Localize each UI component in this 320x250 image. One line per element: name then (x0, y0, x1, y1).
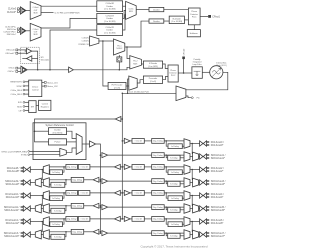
node SDCLKout13 pads (21, 232, 22, 233)
mux DCLKout6 output mux (184, 217, 190, 227)
wire PLL1 N mux to N delay (125, 21, 149, 47)
wire PD2 to loop filter (178, 72, 192, 74)
svg-text:Dig. Delay: Dig. Delay (153, 193, 163, 195)
wire sysref rail (96, 144, 101, 232)
wire to SDCLK mux (49, 179, 71, 181)
wire status outputs (42, 81, 45, 83)
buffer sysref clock buffer (115, 117, 121, 122)
node CPout1 pin (208, 15, 211, 18)
svg-text:DCLKout6*: DCLKout6* (211, 222, 224, 225)
svg-text:SYNC and SYSREF_REQ: SYNC and SYSREF_REQ (1, 151, 27, 153)
svg-text:CPout2: CPout2 (183, 48, 186, 56)
svg-text:Registers: Registers (41, 105, 49, 108)
wire OSCin main line (27, 69, 68, 71)
wire R delay to phase detector PLL1 (164, 9, 189, 11)
block SPI (29, 101, 36, 113)
wire mux to driver DCLKout2 (190, 169, 200, 171)
svg-text:Holdover: Holdover (190, 33, 198, 35)
mux SDCLKout11 delay mux (43, 204, 49, 214)
node SDCLKout11 pads (21, 206, 22, 207)
wire VCO to distribution mux (186, 72, 228, 90)
delay analog fs delay SDCLKout11 (51, 208, 65, 213)
svg-text:OSCout0*: OSCout0* (5, 52, 15, 55)
buffer DCLKout0 differential driver (200, 141, 203, 146)
buffer SYSREF tap SDCLKout13 (100, 231, 102, 233)
wire sysref line SDCLKout7 (108, 232, 152, 234)
delay digital delay SDCLKout5 (152, 205, 165, 210)
node DCLKout12 pads (21, 219, 22, 220)
mux DCLKout8 output mux (43, 165, 49, 175)
svg-text:Phase: Phase (191, 11, 198, 13)
wire CLKin0R to PLL1 R mux (123, 5, 126, 7)
svg-text:DCLKout4*: DCLKout4* (211, 196, 224, 199)
wire SPI to control registers (36, 104, 39, 106)
svg-text:System Reference Control: System Reference Control (45, 124, 74, 127)
buffer DCLKout10 differential driver (27, 193, 30, 198)
wire OSCin to PLL2 mux (73, 67, 129, 70)
wire main distribution vertical (121, 93, 123, 219)
mux SDCLKout7 delay mux (184, 230, 190, 240)
svg-text:(8 to 8191): (8 to 8191) (53, 132, 63, 135)
node DCLKout4 pads (208, 193, 209, 194)
delay digital delay DCLKout12 (66, 217, 78, 222)
svg-text:DCLKout10*: DCLKout10* (6, 196, 20, 199)
svg-text:PLL2: PLL2 (171, 75, 175, 77)
wire divider line to mux DCLKout0 (164, 140, 184, 142)
op-amp PD2 Phase Detector PLL2 (168, 65, 178, 82)
svg-text:OSCin*: OSCin* (8, 71, 15, 73)
wire to SDCLK mux (49, 205, 71, 207)
buffer DCLKout2 differential driver (200, 167, 203, 172)
svg-text:fs Delay: fs Delay (54, 237, 62, 239)
wire device clock to SDCLK mux (191, 222, 193, 232)
svg-text:fs Delay: fs Delay (171, 146, 179, 148)
svg-text:Dig. Delay: Dig. Delay (73, 232, 83, 234)
block SYSREF Pulser (49, 139, 67, 145)
divider CLKin1R (1 to 16,383) (97, 13, 123, 23)
wire distribution tap DCLKout8 (122, 166, 124, 168)
mux SYSREF MUX (76, 134, 82, 155)
mux SYNC input gate (60, 148, 67, 156)
svg-text:Dig. Delay: Dig. Delay (67, 167, 77, 169)
delay digital delay SDCLKout9 (71, 177, 84, 182)
svg-text:PLL1: PLL1 (117, 46, 121, 48)
svg-text:(2 to 8): (2 to 8) (114, 86, 120, 89)
svg-text:SCK: SCK (18, 102, 23, 104)
svg-text:Fin: Fin (197, 98, 201, 100)
wire N source to feedback prescaler (103, 41, 108, 86)
svg-text:Copyright © 2017, Texas Instru: Copyright © 2017, Texas Instruments Inco… (140, 245, 207, 249)
wire CLKin0 mux to CLKin0R divider (41, 5, 97, 7)
svg-text:(1 to 16,383): (1 to 16,383) (104, 8, 116, 11)
wire device clock to SDCLK mux (41, 196, 42, 206)
buffer SDCLKout9 differential driver (27, 180, 30, 185)
svg-text:CLKin0R: CLKin0R (106, 3, 115, 5)
wire device clock to SDCLK mux (41, 170, 42, 180)
svg-text:Divider: Divider (106, 5, 113, 8)
mux DCLKout0 output mux (184, 139, 190, 149)
wire device clock to SDCLK mux (41, 222, 42, 232)
wire distribution tap DCLKout0 (122, 140, 124, 142)
delay analog fs delay SDCLKout3 (168, 181, 180, 186)
buffer DCLKout12 group buffer (114, 216, 120, 221)
svg-text:(2 to 8): (2 to 8) (150, 80, 156, 83)
divider device clock divider DCLKout8 (78, 165, 90, 170)
wire XO internal (32, 51, 38, 70)
svg-text:Status_LD1: Status_LD1 (47, 81, 58, 84)
svg-text:Divider: Divider (153, 20, 160, 23)
delay analog fs delay DCLKout6 (168, 222, 182, 227)
svg-text:to XO PIN and SYSREF MUX: to XO PIN and SYSREF MUX (55, 12, 81, 15)
buffer OSCin buffer (21, 66, 27, 73)
wire distribution tap DCLKout4 (122, 192, 124, 194)
svg-text:(1 to 16,383): (1 to 16,383) (104, 31, 116, 34)
svg-text:Clock Distribution Path: Clock Distribution Path (128, 90, 149, 93)
svg-text:SDCLKout7*: SDCLKout7* (211, 235, 225, 238)
buffer SDCLKout3 differential driver (200, 180, 203, 185)
mux SDCLKout3 delay mux (184, 178, 190, 188)
wire to SDCLK mux (164, 180, 184, 182)
wire doubler to PLL1 N mux (118, 55, 120, 57)
divider PLL2 N Divider (1 to 4,095) (143, 61, 162, 68)
node DCLKout6 pads (208, 219, 209, 220)
delay analog fs delay DCLKout2 (168, 170, 182, 175)
node SDCLKout7 pads (208, 232, 209, 233)
svg-text:fs Delay: fs Delay (171, 224, 179, 226)
wire mux to driver DCLKout8 (30, 169, 43, 171)
svg-text:Device: Device (32, 87, 39, 89)
buffer SDCLKout5 differential driver (200, 206, 203, 211)
buffer DCLKout6 group buffer (124, 216, 130, 221)
buffer SDCLKout1 differential driver (200, 154, 203, 159)
svg-text:Fb Prescaler: Fb Prescaler (112, 84, 123, 87)
node Status_LD1 pad (44, 82, 46, 84)
svg-text:SDCLKout13*: SDCLKout13* (4, 235, 19, 238)
svg-text:SYSREF CLK: SYSREF CLK (78, 44, 89, 46)
wire mux to driver DCLKout12 (30, 221, 43, 223)
mux CLKin0 OUT MUX (30, 2, 41, 20)
wire sysref line SDCLKout3 (108, 180, 152, 182)
wire N source mux to PLL1 N mux (99, 40, 114, 42)
wire PD1 to holdover (193, 25, 195, 30)
mux PLL1 N MUX (114, 39, 125, 55)
wire loop filter to VCO (202, 71, 209, 73)
svg-text:CLKin0*: CLKin0* (7, 10, 16, 14)
buffer DCLKout6 differential driver (200, 219, 203, 224)
buffer SYSREF tap SDCLKout5 (100, 206, 102, 208)
wire distribution tap DCLKout10 (122, 192, 124, 194)
mux CLKin1 OUT MUX (30, 23, 41, 41)
svg-text:CLKin_SEL1: CLKin_SEL1 (11, 94, 23, 96)
svg-text:CLKin0R,: CLKin0R, (82, 38, 90, 40)
wire CLKin2R to PLL1 R mux (123, 15, 126, 30)
delay digital delay SDCLKout7 (152, 231, 165, 236)
svg-text:SDCLKout5*: SDCLKout5* (211, 209, 225, 212)
svg-text:Pulser: Pulser (55, 141, 61, 144)
divider device clock divider DCLKout0 (132, 139, 144, 144)
wire divider line to mux DCLKout6 (164, 218, 184, 220)
delay analog fs delay DCLKout8 (50, 170, 63, 175)
wire mux to driver DCLKout0 (190, 143, 200, 145)
buffer SYSREF output buffer (90, 141, 96, 147)
wire clock distribution path (122, 92, 176, 94)
svg-text:(1 to 16,383): (1 to 16,383) (171, 20, 182, 23)
svg-text:Divider: Divider (153, 9, 160, 12)
node SDCLKout9 pads (21, 180, 22, 181)
wire sysref line SDCLKout5 (108, 206, 152, 208)
svg-text:SDIO: SDIO (17, 106, 22, 108)
wire distribution to sysref divider (121, 118, 122, 120)
buffer DCLKout8 group buffer (114, 164, 120, 169)
wire sysref clock line (35, 119, 116, 123)
divider device clock divider DCLKout6 (132, 217, 144, 222)
svg-text:fs Delay: fs Delay (54, 185, 62, 187)
mux SDCLKout13 source mux (35, 230, 41, 239)
wire divider line to mux DCLKout10 (49, 192, 66, 194)
wire Fin to distribution mux (186, 96, 191, 98)
delay digital delay SDCLKout3 (152, 179, 165, 184)
svg-text:fs Delay: fs Delay (171, 172, 179, 174)
mux SDCLKout9 delay mux (43, 178, 49, 188)
wire to SDCLK mux (164, 154, 184, 156)
buffer SYSREF tap SDCLKout11 (100, 205, 102, 207)
delay analog fs delay SDCLKout1 (168, 155, 180, 160)
wire sysref mux to output buffer (82, 143, 89, 145)
buffer SYSREF tap SDCLKout3 (100, 180, 102, 182)
buffer XO input buffer (27, 48, 32, 53)
node DCLKout8 pads (21, 167, 22, 168)
svg-text:Dig. Delay: Dig. Delay (153, 233, 163, 235)
svg-text:N Divider: N Divider (149, 63, 158, 65)
svg-text:SYNC: SYNC (21, 155, 27, 157)
wire device clock to SDCLK mux (191, 144, 193, 154)
svg-text:fs Delay: fs Delay (52, 172, 60, 174)
wire SYNC pads to gate (30, 150, 60, 152)
node CPout2 pin (182, 57, 185, 60)
divider device clock divider DCLKout4 (132, 191, 144, 196)
svg-text:Dig. Delay: Dig. Delay (153, 141, 163, 143)
mux SDCLKout11 source mux (35, 204, 41, 213)
block Holdover (187, 30, 200, 37)
wire control pads to device control (25, 81, 29, 83)
node DCLKout10 pads (21, 193, 22, 194)
buffer DCLKout4 group buffer (124, 190, 130, 195)
wire to SDCLK mux (49, 231, 71, 233)
svg-text:Dig. Delay: Dig. Delay (153, 155, 163, 157)
divider PLL1 N Divider (1 to 16,383) (169, 16, 184, 24)
svg-text:PLL2: PLL2 (133, 61, 137, 63)
delay digital delay DCLKout0 (152, 139, 165, 144)
svg-text:Dig. Delay: Dig. Delay (153, 207, 163, 209)
mux DCLKout2 output mux (184, 165, 190, 175)
svg-text:DCLKout2*: DCLKout2* (211, 170, 224, 173)
node Status_LD2 pad (44, 85, 46, 87)
svg-text:SPI: SPI (31, 106, 35, 108)
svg-text:DCLKout0*: DCLKout0* (211, 144, 224, 147)
mux SDCLKout9 source mux (35, 178, 41, 187)
delay digital delay DCLKout4 (152, 191, 165, 196)
delay digital delay DCLKout10 (66, 191, 78, 196)
wire device clock to SDCLK mux (191, 170, 193, 180)
svg-text:÷1 to 32: ÷1 to 32 (80, 166, 88, 169)
buffer DCLKout12 differential driver (27, 219, 30, 224)
buffer DCLKout8 differential driver (27, 167, 30, 172)
wire N delay to N divider (164, 20, 169, 22)
svg-text:OSCout0: OSCout0 (6, 49, 15, 52)
delay analog fs delay DCLKout12 (50, 222, 63, 227)
delay digital delay SDCLKout13 (71, 229, 84, 234)
wire sysref line SDCLKout13 (84, 231, 93, 233)
mux VCO distribution MUX (176, 86, 186, 101)
buffer SYSREF tap SDCLKout7 (100, 232, 102, 234)
wire sysref line SDCLKout11 (84, 205, 93, 207)
divider CLKin0R (1 to 16,383) (97, 1, 123, 12)
delay analog fs delay DCLKout4 (168, 196, 182, 201)
svg-text:Control: Control (32, 88, 39, 91)
wire Fb mux to VCO prescaler (137, 80, 143, 83)
svg-text:Dig. Delay: Dig. Delay (153, 181, 163, 183)
svg-text:CLKin: CLKin (128, 8, 133, 10)
buffer DCLKout10 group buffer (114, 190, 120, 195)
svg-text:÷1 to 32: ÷1 to 32 (134, 218, 142, 221)
svg-text:CLKin1R: CLKin1R (106, 15, 115, 17)
svg-text:Dig. Delay: Dig. Delay (67, 219, 77, 221)
svg-text:fs Delay: fs Delay (170, 184, 178, 186)
svg-text:fs Delay: fs Delay (54, 211, 62, 213)
svg-text:SYNC: SYNC (16, 86, 22, 88)
divider SYSREF Divider (8 to 8191) (49, 128, 67, 135)
mux SDCLKout13 delay mux (43, 230, 49, 240)
svg-text:SDCLKout11*: SDCLKout11* (4, 209, 19, 212)
wire OSCin pads to buffer (18, 67, 21, 69)
svg-text:Control: Control (42, 103, 49, 106)
svg-text:Status_LD2: Status_LD2 (47, 85, 58, 88)
divider device clock divider DCLKout2 (132, 165, 144, 170)
svg-text:Detector: Detector (190, 13, 198, 16)
wire mux to driver DCLKout6 (190, 221, 200, 223)
svg-text:÷1 to 32: ÷1 to 32 (134, 192, 142, 195)
svg-text:fs Delay: fs Delay (170, 210, 178, 212)
node Fin pad (191, 97, 193, 99)
delay analog fs delay SDCLKout13 (51, 234, 65, 239)
buffer SDCLKout7 differential driver (200, 232, 203, 237)
wire mux to driver DCLKout10 (30, 195, 43, 197)
wire PLL2 N divider to PD2 (163, 64, 168, 69)
svg-text:fs Delay: fs Delay (171, 198, 179, 200)
wire CLKin0 pads to buffer (19, 8, 20, 10)
wire device clock to SDCLK mux (191, 196, 193, 206)
wire divider line to mux DCLKout8 (49, 166, 66, 168)
delay PLL1 N Delay (149, 19, 164, 23)
buffer U2 CLKin1 input buffer (20, 27, 26, 34)
mux PLL2 reference MUX (130, 56, 142, 69)
wire Fb prescaler to Fb mux (126, 85, 129, 87)
delay analog fs delay SDCLKout7 (168, 233, 180, 238)
op-amp PD1 Phase Detector PLL1 (188, 8, 200, 25)
divider PLL2 Prescaler (143, 76, 162, 83)
block Device Control (29, 80, 42, 97)
delay analog fs delay SDCLKout9 (51, 182, 65, 187)
block System Reference Control (33, 123, 86, 160)
svg-text:(1 to 4,095): (1 to 4,095) (148, 65, 158, 68)
mux PLL1 R MUX (126, 1, 137, 19)
delay analog fs delay SDCLKout5 (168, 207, 180, 212)
delay digital delay SDCLKout1 (152, 153, 165, 158)
delay PLL1 R Delay (149, 7, 164, 11)
buffer SDCLKout11 differential driver (27, 206, 30, 211)
svg-text:SDCLKout3*: SDCLKout3* (211, 183, 225, 186)
wire divider line to mux DCLKout4 (164, 192, 184, 194)
wire CPout2 (183, 59, 185, 73)
buffer DCLKout0 group buffer (124, 138, 130, 143)
svg-text:Dig. Delay: Dig. Delay (153, 219, 163, 221)
buffer DCLKout2 group buffer (124, 164, 130, 169)
svg-text:Divider: Divider (106, 29, 113, 32)
wire to SDCLK mux (164, 206, 184, 208)
svg-text:(1 to 16,383): (1 to 16,383) (104, 20, 116, 23)
wire CLKin1 mux to CLKin1R divider (41, 18, 97, 28)
svg-text:CLKin1R,: CLKin1R, (82, 41, 90, 43)
svg-text:CLKin2R: CLKin2R (106, 27, 115, 29)
mux SDCLKout3 source mux (193, 178, 199, 187)
node SDCLKout3 pads (208, 180, 209, 181)
wire prescaler to PD2 (163, 77, 168, 80)
mux DCLKout12 output mux (43, 217, 49, 227)
buffer OSCout0 driver (27, 56, 32, 61)
svg-text:Divider: Divider (54, 129, 61, 132)
svg-text:FBCLKin*: FBCLKin* (7, 34, 17, 36)
wire PD1 to CPout1 pin (200, 15, 208, 17)
buffer DCLKout4 differential driver (200, 193, 203, 198)
mux SDCLKout7 source mux (193, 230, 199, 239)
node DCLKout0 pads (208, 141, 209, 142)
wire sysref line SDCLKout9 (84, 179, 93, 181)
wire OSCin/CLKin2 to CLKin2R divider (50, 30, 97, 70)
wire CLKin1 pads to buffer (19, 28, 20, 30)
svg-text:CS*: CS* (18, 110, 22, 112)
block Fb Prescaler (108, 82, 126, 89)
svg-text:CLKin_SEL0: CLKin_SEL0 (11, 90, 23, 92)
wire mux to driver DCLKout4 (190, 195, 200, 197)
wire divider to sysref mux (67, 131, 77, 138)
mux feedback MUX (129, 76, 137, 90)
svg-text:÷1 to 32: ÷1 to 32 (80, 192, 88, 195)
svg-text:DCLKout12*: DCLKout12* (6, 222, 20, 225)
wire OSCout pads into XO buffer (18, 49, 27, 51)
svg-text:N MUX: N MUX (117, 48, 124, 50)
delay analog fs delay DCLKout10 (50, 196, 63, 201)
wire gate to sysref mux (66, 148, 76, 152)
svg-text:DCLKout8*: DCLKout8* (7, 170, 19, 173)
block XO buffer dashed enclosure (21, 47, 40, 63)
delay digital delay DCLKout6 (152, 217, 165, 222)
delay digital delay SDCLKout11 (71, 203, 84, 208)
mux DCLKout4 output mux (184, 191, 190, 201)
wire distribution path to Fb mux (128, 79, 129, 93)
block Control Registers (39, 100, 51, 110)
wire sysref internal feed (35, 123, 49, 142)
wire N divider to phase detector PLL1 (184, 19, 188, 21)
wire distribution tap DCLKout12 (122, 218, 124, 220)
wire divider line to mux DCLKout12 (49, 218, 66, 220)
svg-text:fs Delay: fs Delay (170, 158, 178, 160)
wire CLKin1R to PLL1 R mux (123, 10, 126, 18)
svg-text:fs Delay: fs Delay (170, 236, 178, 238)
svg-text:fs Delay: fs Delay (52, 198, 60, 200)
wire sysref line SDCLKout1 (108, 154, 152, 156)
svg-text:Dig. Delay: Dig. Delay (73, 206, 83, 208)
buffer SYSREF tap SDCLKout9 (100, 179, 102, 181)
